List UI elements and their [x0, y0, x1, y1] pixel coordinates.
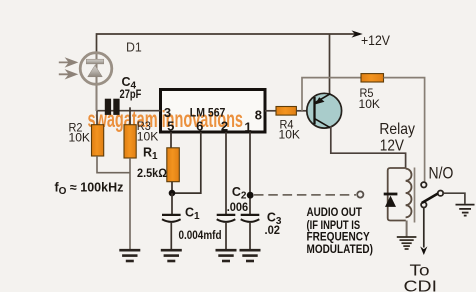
ground G2 — [161, 250, 182, 261]
D1 triangle — [88, 65, 103, 77]
svg-text:+12V: +12V — [361, 32, 391, 48]
capacitor C2 — [217, 214, 236, 216]
+12V arrowhead — [352, 30, 363, 37]
wire pin3 node: D1/R2/C4 junction to IC pin 3 — [97, 110, 161, 112]
wire node to C1 — [171, 193, 173, 214]
node audio out dot — [247, 192, 254, 199]
To CDI arrowhead — [420, 246, 427, 255]
node R3 tick — [129, 107, 131, 124]
wire R1 bottom to node — [171, 182, 173, 193]
svg-text:5: 5 — [167, 118, 174, 133]
dashed audio out wire — [254, 194, 356, 196]
svg-text:8: 8 — [255, 107, 262, 122]
resistor R5 — [361, 74, 384, 82]
svg-text:0.004mfd: 0.004mfd — [179, 230, 222, 242]
wire C2 to ground — [225, 223, 227, 250]
wire R4 to Q1 base — [296, 110, 308, 112]
svg-text:.02: .02 — [265, 225, 281, 237]
wire pole B down to CDI arrow — [423, 208, 425, 248]
svg-text:10K: 10K — [137, 130, 159, 144]
photodiode D1 wire through — [96, 52, 98, 111]
wire coil to ground stem — [406, 221, 408, 237]
transistor Q1 body — [307, 93, 342, 128]
wire top-left corner from D1 to +12V rail — [97, 34, 360, 111]
svg-text:To: To — [410, 262, 430, 279]
svg-text:10K: 10K — [279, 128, 301, 142]
svg-text:10K: 10K — [69, 130, 91, 144]
photodiode D1 body — [80, 53, 112, 85]
D1 cathode bar — [86, 59, 103, 64]
svg-text:2: 2 — [221, 119, 228, 134]
audio out caption — [307, 205, 373, 256]
svg-text:2.5kΩ: 2.5kΩ — [137, 166, 167, 180]
wire R3 down to ground — [129, 158, 131, 250]
switch pole contact B — [421, 202, 426, 207]
svg-text:6: 6 — [196, 118, 203, 133]
svg-text:D1: D1 — [126, 40, 142, 55]
wire pin1 down through node to C3 — [249, 132, 251, 214]
resistor R3 — [124, 125, 136, 158]
ground G6 tapered — [456, 205, 475, 216]
resistor R1 — [167, 148, 180, 182]
relay core line — [414, 168, 416, 223]
Q1 collector line — [315, 119, 331, 128]
wire collector down and over to relay coil — [331, 126, 406, 168]
capacitor C1 — [162, 214, 181, 216]
ground G1 — [119, 250, 140, 261]
wire pin2 down to C2 — [225, 132, 227, 214]
svg-text:LM 567: LM 567 — [190, 107, 226, 119]
Q1 base bar — [313, 97, 315, 124]
wire R5 to N/O contact — [384, 78, 425, 182]
wire pin5 stub — [170, 132, 172, 148]
svg-text:Relay: Relay — [379, 121, 415, 138]
svg-text:CDI: CDI — [404, 278, 438, 292]
svg-text:27pF: 27pF — [120, 89, 142, 101]
wire base feedback up-over — [302, 78, 361, 111]
ground G3 — [216, 250, 237, 261]
audio out terminal circle — [357, 191, 363, 197]
capacitor C3 — [241, 214, 260, 216]
ground G4 — [240, 250, 261, 261]
wire +12V drop to Q1 emitter — [329, 34, 331, 95]
wire contact C to ground — [443, 193, 465, 204]
ground G5 tapered — [397, 237, 417, 249]
wire pin8 to R4 — [265, 110, 276, 112]
wire C1 to ground — [170, 223, 172, 250]
resistor R4 — [276, 107, 296, 116]
switch contact A (N/O) — [421, 182, 426, 187]
switch blade — [422, 194, 438, 203]
node junction dot — [169, 190, 176, 197]
svg-text:N/O: N/O — [429, 164, 454, 183]
wire C3 to ground — [249, 223, 251, 250]
wire R2 bottom jog to R3 line — [97, 156, 130, 173]
svg-text:10K: 10K — [359, 97, 381, 111]
Q1 emitter arrow (PNP, points at base) — [315, 97, 325, 104]
svg-text:MODULATED): MODULATED) — [307, 242, 373, 256]
flyback diode D2 bar — [384, 193, 398, 196]
relay coil loops — [406, 169, 412, 218]
D1 light arrow 2 — [59, 71, 76, 77]
wire pin6 jog to node — [172, 132, 201, 193]
svg-text:.006: .006 — [227, 202, 249, 214]
switch contact C — [438, 191, 443, 196]
resistor R2 — [96, 111, 98, 125]
Q1 emitter line — [315, 94, 331, 103]
D1 light arrow 1 — [59, 59, 76, 65]
flyback diode D2 triangle — [385, 196, 396, 207]
relay coil box — [388, 168, 406, 221]
svg-text:12V: 12V — [380, 137, 405, 154]
IC U1 LM567 body — [161, 90, 266, 133]
capacitor C4 plates — [105, 99, 111, 115]
